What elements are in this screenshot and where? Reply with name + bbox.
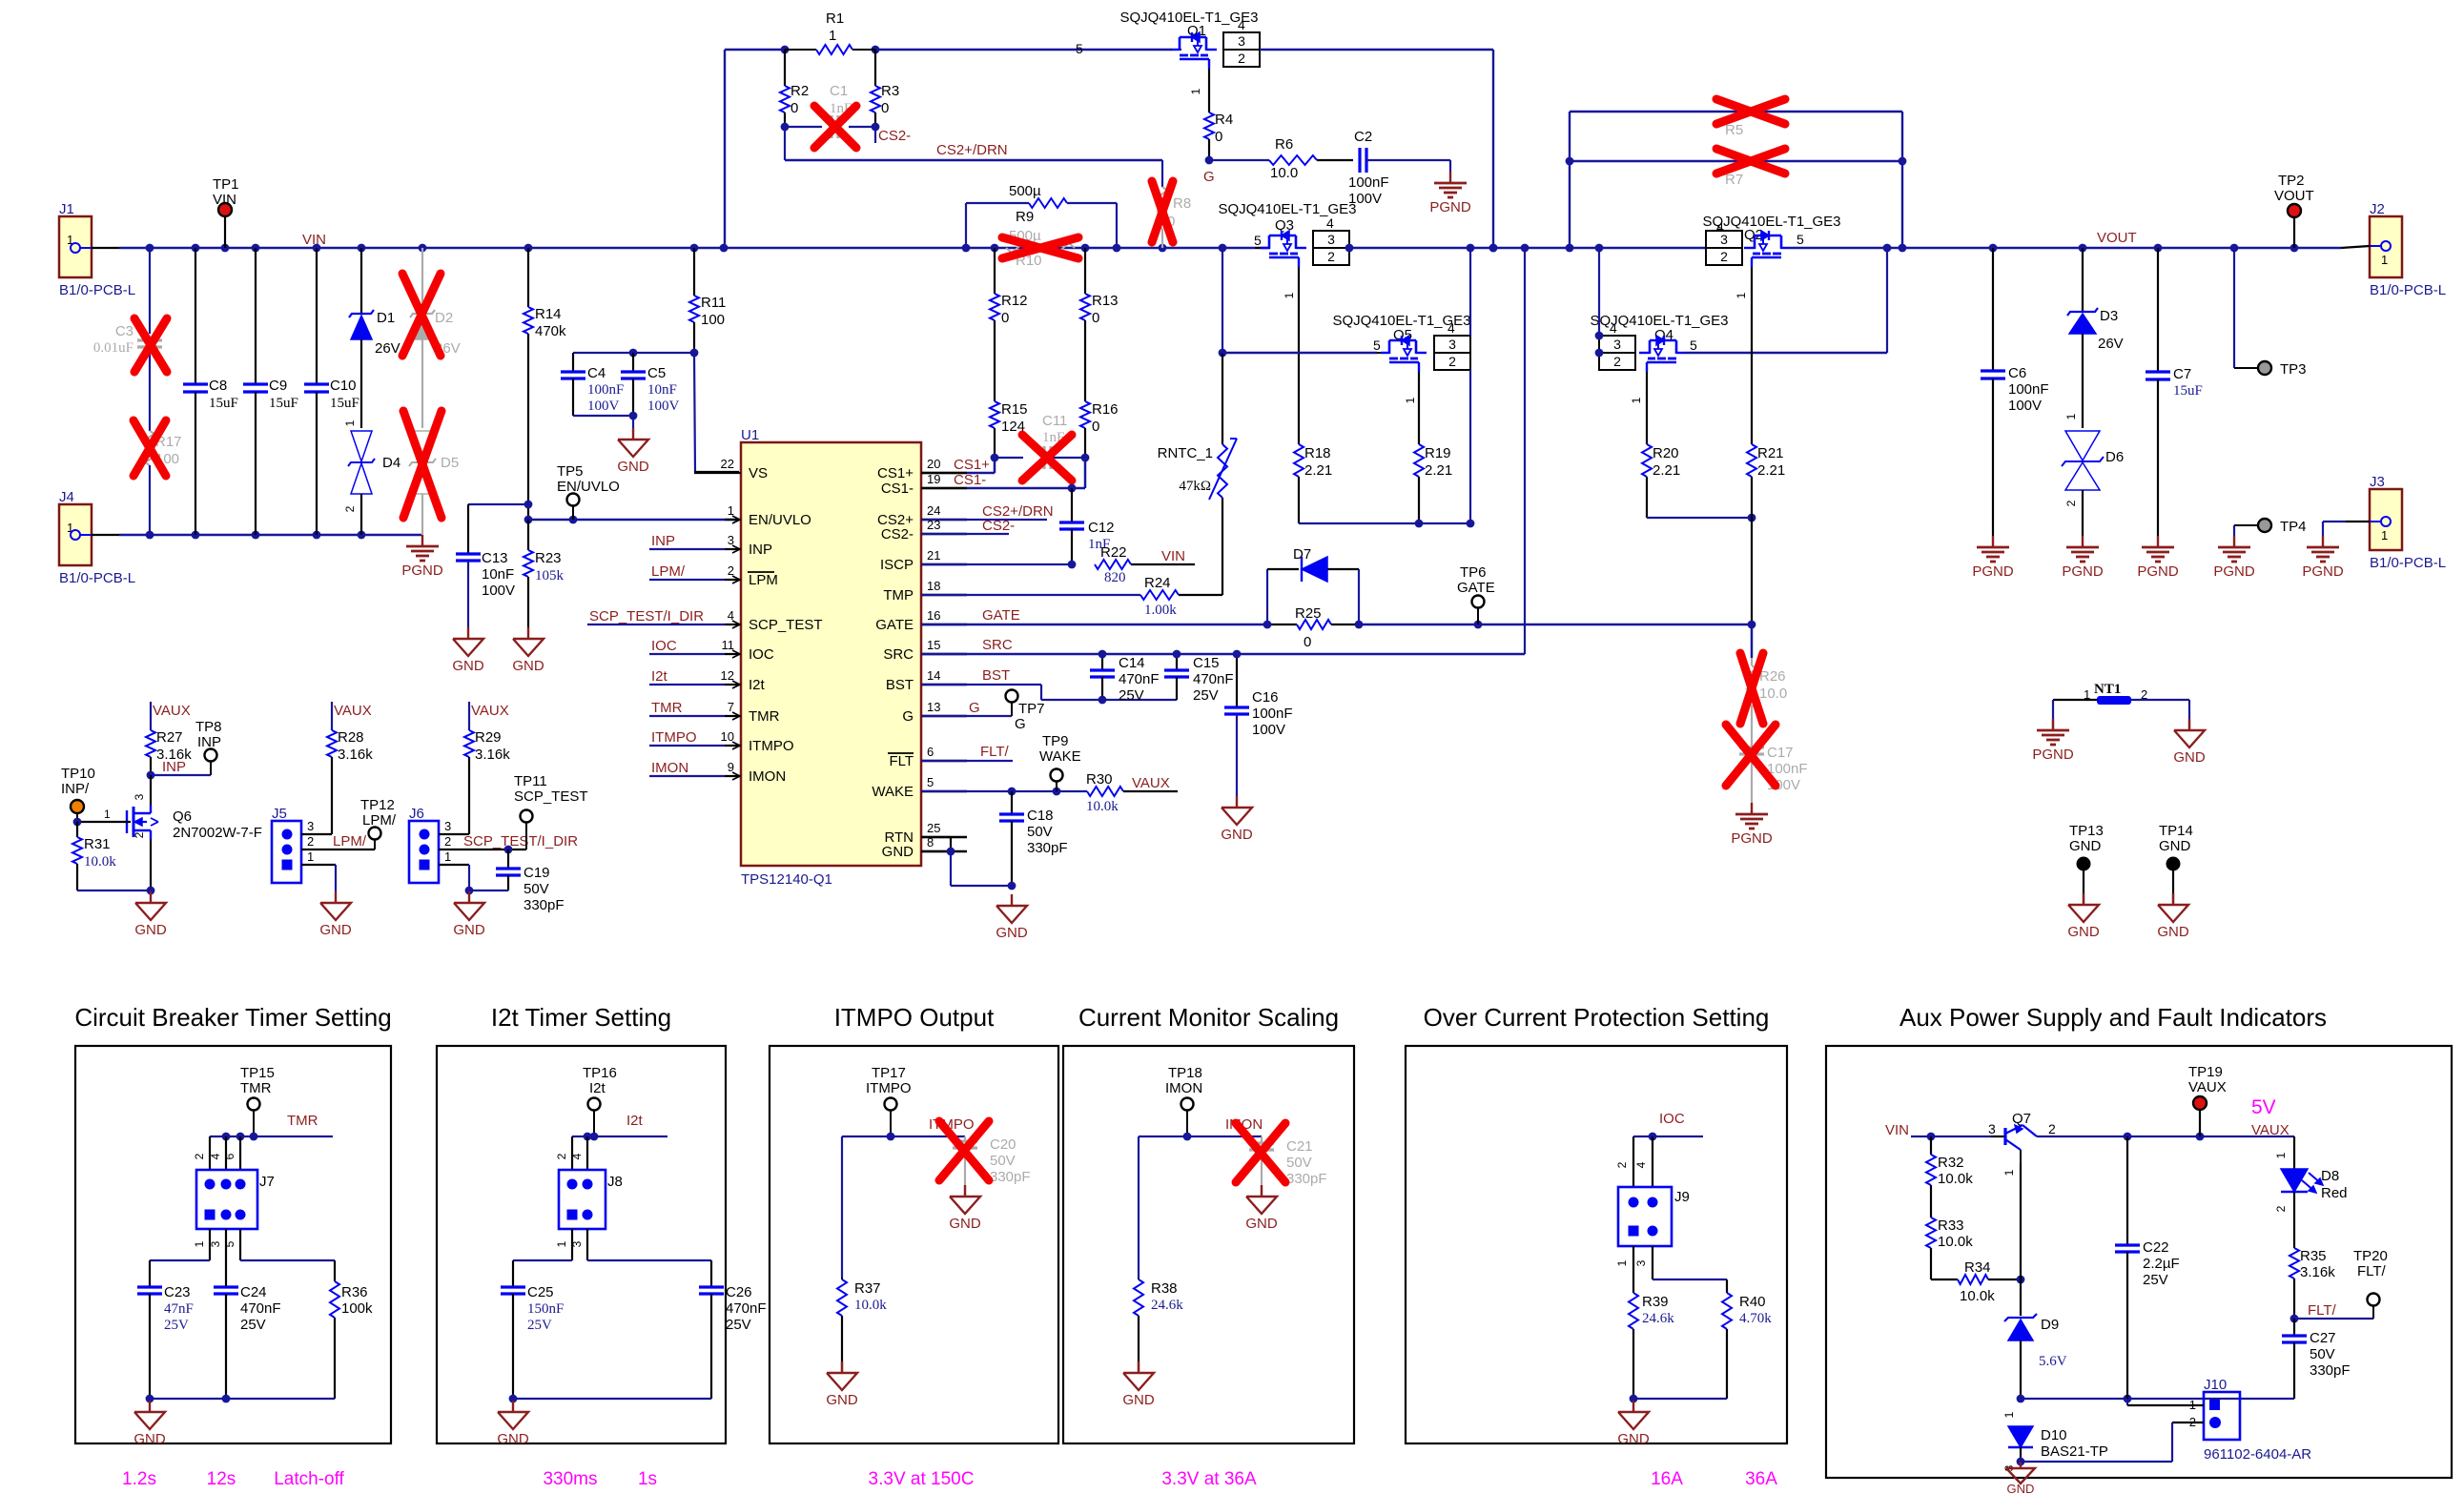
svg-text:0: 0 (1092, 419, 1099, 435)
power symbol PGND input (421, 535, 423, 546)
svg-text:25V: 25V (2143, 1272, 2168, 1288)
svg-text:1: 1 (1630, 397, 1643, 403)
svg-text:1: 1 (2002, 1169, 2016, 1176)
svg-text:R11: R11 (701, 295, 726, 311)
svg-text:R7: R7 (1725, 172, 1743, 188)
capacitor C22 (2126, 1136, 2128, 1245)
svg-text:3: 3 (1613, 337, 1621, 352)
svg-text:330ms: 330ms (543, 1469, 597, 1489)
svg-text:CS1+: CS1+ (877, 465, 914, 481)
svg-text:R30: R30 (1086, 771, 1113, 788)
svg-text:6: 6 (927, 745, 934, 759)
svg-text:J5: J5 (272, 806, 287, 822)
svg-text:24.6k: 24.6k (1642, 1311, 1674, 1326)
svg-text:TP1: TP1 (213, 176, 239, 193)
resistor R30 (1087, 787, 1123, 796)
wire box2 bottom row (513, 1398, 711, 1400)
resistor R24 (1140, 590, 1179, 600)
svg-text:3: 3 (209, 1240, 222, 1247)
svg-text:C24: C24 (240, 1284, 267, 1300)
svg-text:CS1-: CS1- (954, 472, 986, 488)
svg-text:3.3V at 150C: 3.3V at 150C (869, 1469, 975, 1489)
svg-text:2.21: 2.21 (1757, 462, 1785, 479)
svg-text:5V: 5V (2251, 1096, 2276, 1118)
resistor R38 (1134, 1279, 1143, 1316)
capacitor C17 (DNP) (1739, 746, 1764, 748)
svg-text:R16: R16 (1092, 401, 1119, 418)
wire Q7 to D9 (2020, 1163, 2022, 1279)
svg-text:CS2-: CS2- (878, 128, 911, 144)
wire Q2 to J2 (1790, 247, 2341, 249)
svg-text:0: 0 (1215, 129, 1222, 145)
U1 pin24 CS2+ stub (921, 519, 1047, 521)
wire J10 pin2 (2172, 1422, 2204, 1423)
svg-text:TMR: TMR (749, 708, 780, 725)
svg-text:J9: J9 (1674, 1189, 1690, 1205)
capacitor C5 (621, 370, 646, 373)
svg-text:R33: R33 (1938, 1218, 1964, 1234)
resistor R20 (1646, 372, 1648, 444)
svg-text:1: 1 (444, 849, 451, 864)
svg-text:GND: GND (134, 922, 167, 938)
svg-text:2: 2 (2048, 1121, 2056, 1136)
svg-text:PGND: PGND (2032, 747, 2074, 763)
ground GND under C20 (964, 1185, 966, 1197)
svg-text:C13: C13 (482, 550, 508, 566)
svg-text:R14: R14 (535, 306, 562, 322)
resistor R33 (1926, 1218, 1936, 1248)
resistor R5 (DNP) (1570, 111, 1902, 113)
capacitor C1 (DNP) (830, 115, 832, 138)
svg-text:GND: GND (949, 1216, 981, 1232)
svg-text:1: 1 (829, 28, 836, 44)
capacitor C21 (DNP) (1261, 1136, 1263, 1143)
svg-text:INP/: INP/ (61, 781, 90, 797)
svg-text:SCP_TEST: SCP_TEST (514, 788, 588, 805)
red X over C17 (1726, 725, 1776, 786)
svg-text:3: 3 (1327, 232, 1335, 247)
svg-text:ITMPO: ITMPO (749, 738, 794, 754)
svg-text:WAKE: WAKE (1039, 748, 1081, 765)
svg-text:2: 2 (1615, 1161, 1629, 1168)
resistor R40 (1722, 1293, 1732, 1329)
svg-text:ISCP: ISCP (880, 557, 914, 573)
wire GATE row (1359, 624, 1752, 625)
svg-text:TMR: TMR (287, 1113, 318, 1129)
power symbol PGND under NT1 (2052, 719, 2054, 730)
svg-text:R5: R5 (1725, 122, 1743, 138)
svg-text:TP19: TP19 (2188, 1064, 2223, 1080)
svg-text:5: 5 (1797, 232, 1804, 247)
svg-text:IOC: IOC (749, 646, 774, 663)
resistor R23 (527, 520, 529, 550)
svg-text:R3: R3 (881, 83, 899, 99)
svg-text:INP: INP (749, 542, 772, 558)
resistor R6 (1269, 155, 1317, 165)
svg-text:3: 3 (444, 819, 451, 833)
capacitor C8 (195, 248, 196, 384)
testpoint TP3 (2233, 248, 2235, 368)
svg-text:Latch-off: Latch-off (274, 1469, 344, 1489)
svg-text:IOC: IOC (1659, 1111, 1685, 1127)
svg-text:Q6: Q6 (173, 808, 192, 825)
capacitor C14 (1101, 654, 1103, 670)
svg-text:TP3: TP3 (2280, 361, 2307, 378)
svg-text:3: 3 (1720, 232, 1728, 247)
svg-text:SCP_TEST/I_DIR: SCP_TEST/I_DIR (589, 608, 704, 624)
svg-text:J6: J6 (409, 806, 424, 822)
testpoint TP4 (2258, 519, 2271, 532)
ground GND box2 (512, 1401, 514, 1412)
svg-text:TP13: TP13 (2069, 823, 2104, 839)
svg-text:TP17: TP17 (872, 1065, 906, 1081)
svg-text:4: 4 (1610, 320, 1617, 336)
svg-text:BAS21-TP: BAS21-TP (2041, 1443, 2108, 1460)
svg-text:IMON: IMON (749, 768, 786, 785)
power symbol PGND top (1449, 172, 1451, 183)
svg-text:11: 11 (722, 638, 735, 652)
wire to C13 (468, 503, 528, 505)
svg-text:330pF: 330pF (1286, 1171, 1327, 1187)
svg-text:C1: C1 (830, 83, 848, 99)
svg-text:1: 1 (2274, 1152, 2288, 1158)
svg-text:B1/0-PCB-L: B1/0-PCB-L (59, 282, 135, 298)
svg-text:961102-6404-AR: 961102-6404-AR (2204, 1446, 2311, 1463)
svg-text:R6: R6 (1275, 136, 1293, 153)
transistor Q7 (PNP) (1991, 1136, 2005, 1137)
svg-text:TP15: TP15 (240, 1065, 275, 1081)
svg-text:R20: R20 (1653, 445, 1679, 461)
wire VS node (694, 353, 695, 472)
svg-text:SCP_TEST: SCP_TEST (749, 617, 823, 633)
svg-text:22: 22 (721, 457, 734, 471)
svg-text:26V: 26V (2098, 336, 2124, 352)
svg-text:0: 0 (1001, 310, 1009, 326)
svg-text:100nF: 100nF (2008, 381, 2049, 398)
red X over R17 (133, 420, 166, 476)
svg-text:10.0k: 10.0k (84, 854, 116, 870)
svg-text:G: G (1203, 169, 1215, 185)
svg-text:I2t: I2t (589, 1080, 606, 1096)
svg-text:5: 5 (1254, 233, 1262, 248)
svg-text:100V: 100V (482, 583, 515, 599)
svg-text:TP18: TP18 (1168, 1065, 1202, 1081)
svg-text:2: 2 (1327, 249, 1335, 264)
wire CS1- net (967, 487, 1085, 490)
svg-text:1: 1 (1615, 1259, 1629, 1266)
capacitor C27 (2293, 1319, 2295, 1336)
capacitor C11 (DNP) (1042, 446, 1045, 469)
svg-text:FLT/: FLT/ (2357, 1263, 2387, 1279)
svg-text:FLT/: FLT/ (980, 744, 1010, 760)
svg-text:4: 4 (1238, 17, 1245, 32)
svg-text:R26: R26 (1759, 668, 1786, 685)
svg-text:R2: R2 (791, 83, 809, 99)
red X over D2 (402, 274, 441, 356)
svg-text:1: 1 (2381, 253, 2388, 267)
svg-text:GND: GND (2067, 924, 2100, 940)
svg-text:330pF: 330pF (1027, 840, 1068, 856)
svg-text:Q3: Q3 (1275, 217, 1294, 234)
resistor R36 (330, 1281, 339, 1318)
svg-text:ITMPO: ITMPO (866, 1080, 912, 1096)
diode D1 (zener 26V) (360, 248, 362, 314)
svg-text:1: 1 (1189, 88, 1202, 94)
svg-text:Current Monitor Scaling: Current Monitor Scaling (1078, 1003, 1339, 1032)
svg-text:D8: D8 (2321, 1168, 2339, 1184)
svg-text:J4: J4 (59, 489, 74, 505)
resistor R13 (1084, 248, 1086, 294)
resistor R32 (1930, 1136, 1932, 1155)
svg-text:2: 2 (2274, 1205, 2288, 1212)
svg-text:C7: C7 (2173, 366, 2191, 382)
wires J9 top pins (1632, 1136, 1634, 1187)
svg-text:1s: 1s (638, 1469, 657, 1489)
U1 pin15 SRC wire (921, 653, 1525, 655)
diode D2 (DNP zener) (421, 248, 423, 314)
svg-text:PGND: PGND (1731, 830, 1773, 847)
svg-text:5: 5 (927, 775, 934, 789)
ground GND under NT1 (2188, 719, 2190, 730)
svg-text:B1/0-PCB-L: B1/0-PCB-L (2370, 282, 2446, 298)
svg-text:0: 0 (1304, 634, 1311, 650)
svg-text:18: 18 (927, 579, 940, 593)
svg-text:2: 2 (555, 1153, 568, 1159)
resistor R29 (464, 730, 474, 757)
svg-text:4: 4 (209, 1153, 222, 1159)
wire J5 pin2 LPM/ (301, 849, 375, 850)
svg-text:I2t: I2t (651, 668, 668, 685)
wire J1 to VIN bus (80, 247, 92, 249)
svg-text:3.3V at 36A: 3.3V at 36A (1161, 1469, 1257, 1489)
svg-text:47nF: 47nF (164, 1301, 194, 1317)
svg-text:R28: R28 (338, 729, 364, 746)
svg-text:J3: J3 (2370, 474, 2385, 490)
capacitor C26 (699, 1285, 724, 1288)
svg-text:25V: 25V (1119, 687, 1144, 704)
svg-text:24.6k: 24.6k (1151, 1298, 1183, 1313)
svg-text:PGND: PGND (2213, 563, 2255, 580)
svg-text:C23: C23 (164, 1284, 191, 1300)
connector J2 (2370, 216, 2402, 277)
resistor R12 (994, 248, 996, 294)
svg-text:TP5: TP5 (557, 463, 584, 480)
svg-text:R4: R4 (1215, 112, 1233, 128)
svg-text:EN/UVLO: EN/UVLO (749, 512, 811, 528)
resistor R14 (527, 248, 529, 307)
svg-text:B1/0-PCB-L: B1/0-PCB-L (2370, 555, 2446, 571)
ground GND under R37 (841, 1361, 843, 1373)
svg-text:1: 1 (1404, 397, 1417, 403)
resistor R10 (DNP) (1006, 243, 1075, 253)
svg-text:R1: R1 (826, 10, 844, 27)
wire R2/R3 bottoms (785, 126, 822, 128)
red X over C21 (1236, 1123, 1285, 1182)
svg-text:TP12: TP12 (360, 797, 395, 813)
svg-text:ITMPO: ITMPO (651, 729, 697, 746)
svg-text:1: 1 (1735, 292, 1748, 298)
svg-text:25V: 25V (164, 1318, 189, 1333)
svg-text:C8: C8 (209, 378, 227, 394)
svg-text:J2: J2 (2370, 201, 2385, 217)
capacitor C3 (DNP) (149, 248, 151, 334)
resistor R18 (1298, 267, 1300, 444)
svg-text:R40: R40 (1739, 1294, 1766, 1310)
svg-text:D2: D2 (435, 310, 453, 326)
resistor R11 (693, 248, 695, 296)
svg-text:C12: C12 (1088, 520, 1115, 536)
red X over C1 (814, 106, 856, 148)
diode D5 (DNP TVS) (412, 431, 433, 461)
svg-text:100V: 100V (587, 399, 620, 414)
resistor R4 (1208, 69, 1210, 113)
svg-text:16A: 16A (1651, 1469, 1683, 1489)
wire J3 to PGND (2370, 521, 2381, 522)
node bottom bus junctions (146, 531, 154, 540)
svg-text:10.0k: 10.0k (1938, 1234, 1973, 1250)
svg-text:R34: R34 (1964, 1259, 1991, 1276)
svg-text:5: 5 (1373, 338, 1381, 353)
svg-text:2: 2 (1448, 354, 1456, 369)
svg-text:C16: C16 (1252, 689, 1279, 706)
svg-text:CS1+: CS1+ (954, 457, 990, 473)
svg-text:19: 19 (927, 472, 940, 486)
wire C11 row (995, 457, 1023, 459)
wire G to R6 (1209, 159, 1269, 161)
svg-text:3.16k: 3.16k (2300, 1264, 2335, 1280)
svg-text:R31: R31 (84, 836, 111, 852)
svg-text:100k: 100k (341, 1300, 373, 1317)
svg-text:2: 2 (343, 505, 357, 512)
svg-text:2: 2 (1238, 51, 1245, 66)
resistor R39 (1629, 1293, 1638, 1329)
svg-text:0: 0 (881, 100, 889, 116)
ground GND under C21 (1261, 1185, 1263, 1197)
svg-text:4: 4 (1448, 320, 1455, 336)
svg-text:GND: GND (2159, 838, 2191, 854)
svg-text:CS2-: CS2- (881, 526, 914, 542)
svg-text:GND: GND (617, 459, 649, 475)
ground GND box1 (149, 1401, 151, 1412)
svg-text:C26: C26 (726, 1284, 752, 1300)
resistor R34 (1931, 1279, 1958, 1280)
svg-text:2: 2 (193, 1153, 206, 1159)
ground GND under R38 (1138, 1361, 1140, 1373)
wire to R38 (1138, 1136, 1140, 1278)
power symbol PGND under TP4 (2233, 536, 2235, 547)
svg-text:3: 3 (1634, 1259, 1648, 1266)
wire Q5 source row (1222, 352, 1377, 354)
svg-text:25: 25 (927, 821, 940, 835)
svg-text:0: 0 (1092, 310, 1099, 326)
resistor R21 on Q2 gate (1751, 267, 1753, 444)
diode D6 (TVS) (2065, 431, 2100, 460)
svg-text:D6: D6 (2105, 449, 2124, 465)
svg-text:150nF: 150nF (527, 1301, 564, 1317)
capacitor C25 (501, 1285, 525, 1288)
svg-text:500µ: 500µ (1009, 183, 1041, 199)
wire IMON row (1139, 1136, 1262, 1137)
wire gate-resistor row left (1299, 522, 1470, 524)
transistor Q5 (1381, 352, 1389, 354)
svg-text:100V: 100V (2008, 398, 2042, 414)
capacitor C20 (DNP) (964, 1136, 966, 1141)
U1 pin13 G wire (921, 715, 1012, 717)
power symbol PGND under C6 (1992, 536, 1994, 547)
U1 pin 1 stub (725, 519, 741, 521)
svg-text:I2t: I2t (749, 677, 766, 693)
svg-text:1: 1 (343, 420, 357, 426)
svg-text:5: 5 (1076, 41, 1083, 56)
svg-text:2: 2 (307, 834, 314, 849)
resistor R15 (990, 401, 999, 428)
U1 pins 25/8 RTN GND (921, 836, 951, 838)
capacitor C15 (1176, 654, 1178, 670)
wire J10 pin1 (2126, 1399, 2128, 1405)
svg-text:330pF: 330pF (524, 897, 565, 913)
svg-text:50V: 50V (990, 1153, 1016, 1169)
svg-text:2: 2 (2064, 500, 2078, 506)
svg-text:TP14: TP14 (2159, 823, 2193, 839)
svg-text:FLT: FLT (889, 753, 914, 769)
svg-text:VAUX: VAUX (153, 703, 191, 719)
wire C2 to PGND (1366, 159, 1450, 161)
svg-text:G: G (902, 708, 914, 725)
svg-text:D4: D4 (382, 455, 400, 471)
connector J7 (196, 1170, 257, 1229)
resistor R16 (1080, 401, 1090, 428)
wire R27 to Q6 drain (150, 775, 152, 806)
wire Q4 box to bus (1598, 248, 1600, 336)
svg-text:I2t: I2t (626, 1113, 644, 1129)
svg-text:CS2-: CS2- (982, 518, 1015, 534)
svg-text:10: 10 (721, 729, 734, 744)
svg-text:2: 2 (133, 831, 146, 838)
svg-text:GND: GND (996, 925, 1028, 941)
svg-text:3.16k: 3.16k (338, 747, 373, 763)
resistor R1 (785, 49, 816, 51)
svg-text:SRC: SRC (982, 637, 1013, 653)
capacitor C7 (2157, 248, 2159, 372)
svg-text:15uF: 15uF (2173, 383, 2203, 399)
svg-text:25V: 25V (1193, 687, 1219, 704)
svg-text:C9: C9 (269, 378, 287, 394)
capacitor C18 (1011, 791, 1013, 814)
svg-text:BST: BST (886, 677, 914, 693)
svg-text:Red: Red (2321, 1185, 2348, 1201)
svg-text:36A: 36A (1745, 1469, 1777, 1489)
svg-text:GND: GND (1122, 1392, 1155, 1408)
resistor R25 (1267, 624, 1297, 625)
resistor R37 (837, 1279, 847, 1316)
svg-text:TP2: TP2 (2278, 173, 2305, 189)
svg-text:3: 3 (1448, 337, 1456, 352)
svg-text:GND: GND (2069, 838, 2102, 854)
svg-text:LPM/: LPM/ (333, 833, 367, 849)
svg-text:INP: INP (651, 533, 675, 549)
svg-text:3: 3 (133, 793, 146, 800)
svg-text:GND: GND (1617, 1431, 1650, 1447)
red X over D5 (403, 411, 441, 518)
svg-text:TP7: TP7 (1018, 701, 1045, 717)
svg-text:D5: D5 (441, 455, 459, 471)
svg-text:J1: J1 (59, 201, 74, 217)
svg-text:50V: 50V (1027, 824, 1053, 840)
svg-text:50V: 50V (524, 881, 549, 897)
wire J5 pin3 (301, 833, 332, 835)
svg-text:VOUT: VOUT (2097, 230, 2137, 246)
U1 pin5 WAKE wire (921, 790, 1087, 792)
